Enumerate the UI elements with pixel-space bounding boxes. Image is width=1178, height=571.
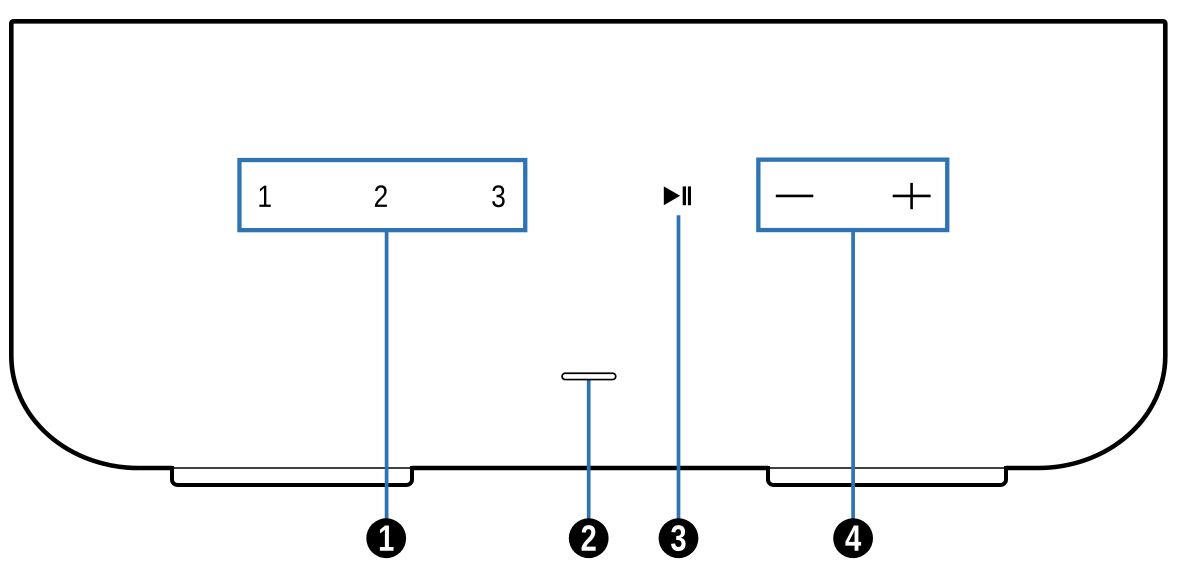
play/pause icon triangle bbox=[664, 186, 680, 205]
preset buttons panel bbox=[239, 160, 525, 230]
callout digit 2 bbox=[582, 525, 596, 551]
play/pause icon pause bar 2 bbox=[688, 186, 691, 205]
left foot bbox=[172, 466, 412, 485]
volume buttons panel bbox=[758, 160, 947, 230]
callout circle 2 bbox=[569, 518, 609, 558]
callout circle 1 bbox=[366, 518, 406, 558]
right foot bbox=[768, 466, 1006, 485]
preset button 2 label bbox=[375, 185, 387, 207]
preset button 3 label bbox=[492, 185, 504, 207]
thin bottom edge across right slot bbox=[768, 467, 1006, 469]
callout circle 3 bbox=[659, 518, 699, 558]
preset button 1 label bbox=[259, 186, 270, 207]
callout digit 4 bbox=[845, 526, 861, 551]
volume plus horizontal stroke bbox=[893, 195, 931, 198]
leader line 2 (status LED) bbox=[587, 379, 591, 520]
device outline (speaker top panel) bbox=[412, 466, 768, 471]
thin bottom edge across left slot bbox=[172, 467, 412, 469]
volume plus vertical stroke bbox=[910, 183, 913, 209]
status LED pill bbox=[562, 373, 616, 379]
leader line 3 (play/pause) bbox=[677, 215, 681, 520]
play/pause icon pause bar 1 bbox=[683, 186, 686, 205]
leader line 4 (volume buttons) bbox=[851, 230, 855, 520]
wire device body outline bbox=[11, 21, 1165, 468]
volume minus stroke bbox=[776, 195, 814, 198]
callout circle 4 bbox=[833, 518, 873, 558]
callout digit 3 bbox=[671, 525, 686, 551]
callout digit 1 bbox=[380, 526, 394, 551]
leader line 1 (preset buttons) bbox=[385, 230, 389, 520]
